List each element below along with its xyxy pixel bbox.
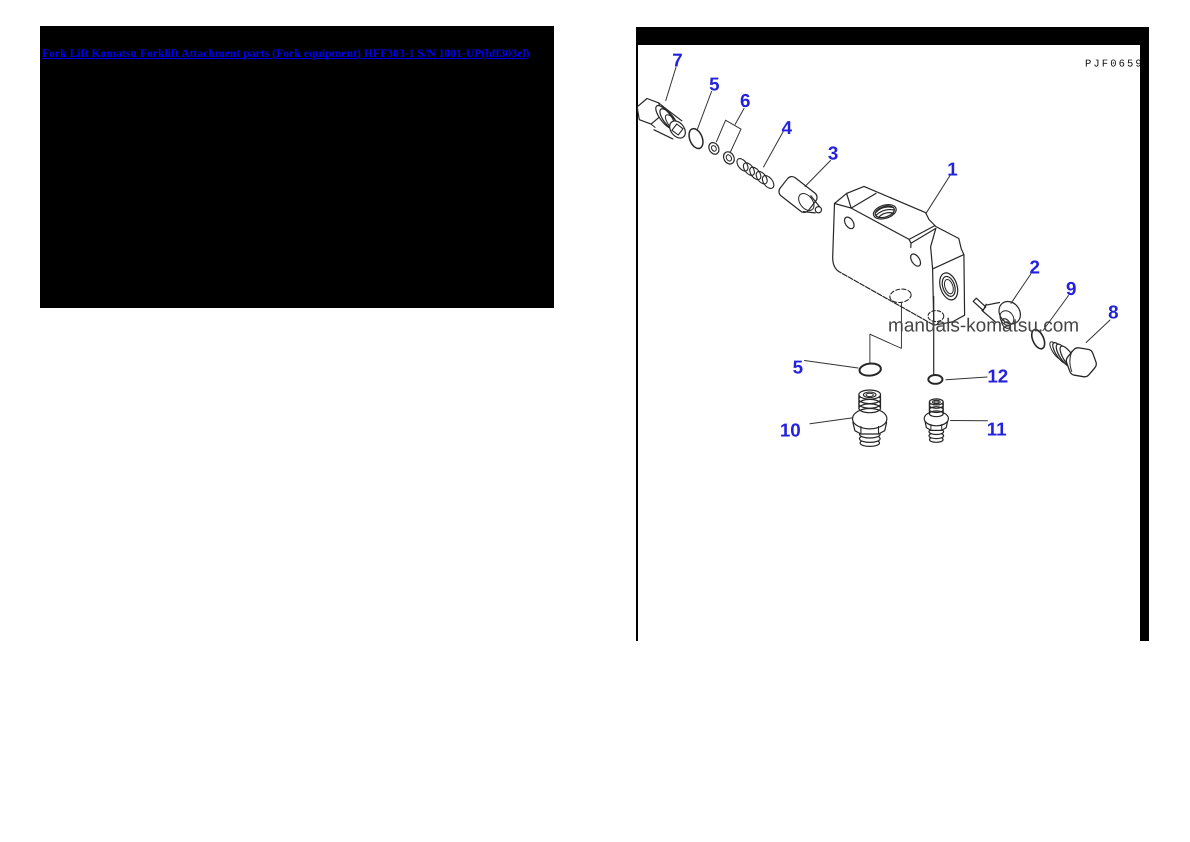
part 11: flange	[924, 411, 948, 425]
svg-text:3: 3	[828, 143, 838, 164]
leader line 5 lower	[805, 361, 859, 369]
part 7: plug fitting hex head	[637, 99, 665, 128]
part 6: washer 2	[721, 150, 736, 166]
svg-text:6: 6	[740, 90, 750, 111]
title hyperlink	[42, 47, 530, 60]
part 10: nipple lower threads	[860, 431, 881, 447]
part 2: fitting with stem	[973, 297, 1025, 330]
svg-text:5: 5	[793, 357, 803, 378]
svg-text:4: 4	[782, 117, 793, 138]
part 10: hex nut	[853, 423, 887, 435]
valve body 1: bottom hidden hole (dashed)	[889, 288, 912, 304]
part 7: thread ridges	[663, 113, 683, 135]
part 8: plug threads	[1048, 340, 1065, 361]
parts diagram svg	[637, 44, 1140, 641]
svg-text:8: 8	[1108, 302, 1118, 323]
leader line 11	[951, 420, 988, 422]
black title box	[40, 26, 554, 308]
valve body 1: front small hole mid	[909, 252, 923, 268]
diagram frame: top band	[636, 27, 1149, 45]
part 7: collar flange ellipses	[653, 103, 682, 133]
diagram frame: left thin line	[636, 27, 638, 641]
svg-text:manuals-komatsu.com: manuals-komatsu.com	[888, 316, 1079, 337]
leader line 8	[1086, 320, 1110, 343]
svg-text:7: 7	[672, 50, 682, 71]
valve body 1: top threaded hole	[872, 202, 898, 221]
part 11: nipple lower threads	[929, 429, 944, 443]
valve body 1: step band	[909, 226, 936, 269]
o-ring 12	[928, 375, 942, 384]
valve body 1: front-top edge	[851, 208, 909, 239]
leader line 3	[805, 161, 831, 187]
centerline from bottom hole to o-ring 5	[870, 303, 902, 363]
leader line 2	[1011, 274, 1031, 303]
leader line 5 upper	[697, 92, 711, 130]
leader line 4	[764, 131, 784, 167]
o-ring 5 lower	[859, 363, 882, 377]
part 7: body tangents and face	[654, 105, 689, 141]
svg-text:PJF0659: PJF0659	[1085, 59, 1140, 71]
svg-text:2: 2	[1029, 257, 1039, 278]
leader line 12	[946, 377, 987, 380]
o-ring 5 upper	[686, 127, 705, 151]
svg-text:9: 9	[1066, 278, 1076, 299]
svg-text:10: 10	[780, 420, 801, 441]
svg-text:5: 5	[709, 74, 719, 95]
centerline to o-ring 12	[933, 297, 935, 375]
valve body 1: right face edges	[933, 255, 964, 326]
part 10: flange	[853, 409, 887, 429]
leader bracket 6	[716, 109, 744, 153]
svg-text:12: 12	[987, 366, 1008, 387]
valve body 1: right face threaded hole	[937, 271, 961, 303]
part 11: hex nut	[925, 421, 948, 431]
part 10: hex facets	[861, 427, 879, 434]
o-ring 9	[1029, 328, 1047, 351]
part 11: hex facets	[931, 425, 942, 431]
diagram frame: right thick bar	[1140, 27, 1149, 642]
valve body 1: outline	[833, 186, 965, 325]
leader line 1	[926, 176, 950, 214]
spring 4 coils	[735, 157, 776, 191]
part 11: top thread stack	[929, 399, 943, 417]
part 6: washer 1	[707, 141, 721, 156]
leader line 10	[810, 418, 853, 424]
leader line 7	[666, 68, 676, 101]
valve body 1: front small hole upper-left	[843, 215, 857, 230]
part 8: flange	[1050, 341, 1080, 373]
part 3: poppet body	[777, 174, 822, 214]
svg-text:1: 1	[947, 159, 957, 180]
valve body 1: top-left chamfer edges	[835, 193, 877, 208]
part 8: hex face	[1066, 348, 1096, 377]
valve body 1: bottom small hidden hole (dashed)	[928, 311, 944, 322]
svg-text:11: 11	[987, 419, 1007, 440]
leader line 9	[1043, 296, 1069, 331]
part 10: top thread stack	[859, 390, 881, 413]
